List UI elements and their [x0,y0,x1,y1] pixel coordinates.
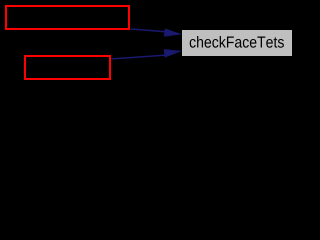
arrowhead edge 2 [164,49,181,57]
call graph: callers of checkFaceTets [0,0,299,88]
caller node box 2 (red, truncated) [25,56,110,79]
label checkFaceTets [190,36,284,48]
arrowhead edge 1 [164,29,181,37]
caller node box 1 (red, truncated) [6,6,129,29]
wire edge 1 [131,29,166,32]
wire edge 2 [112,55,166,59]
node checkFaceTets [182,30,293,57]
